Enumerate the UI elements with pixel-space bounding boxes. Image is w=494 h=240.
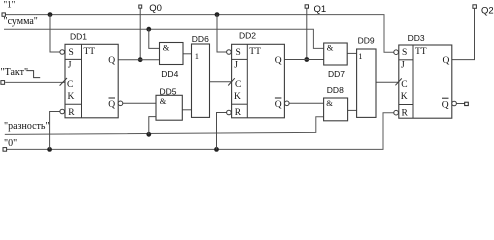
DD2 K/R row divider	[232, 103, 248, 105]
wire DD2.R riser	[217, 113, 227, 150]
svg-text:C: C	[401, 80, 407, 90]
node junction dot 0-line to DD2.R	[214, 147, 219, 152]
svg-text:"0": "0"	[4, 138, 17, 149]
wire DD4 output to DD6	[183, 53, 191, 55]
DD4 body	[160, 43, 184, 65]
svg-text:TT: TT	[249, 47, 261, 57]
svg-text:DD5: DD5	[160, 86, 177, 96]
wire Q2 from DD3.Q	[452, 8, 475, 59]
svg-text:DD6: DD6	[192, 34, 209, 44]
wire DD3.Qbar to output terminal	[456, 103, 464, 105]
DD2 R input inversion bubble	[227, 110, 232, 115]
svg-text:Q: Q	[108, 100, 115, 110]
port "0" terminal	[3, 148, 7, 152]
svg-text:Q: Q	[108, 56, 115, 66]
wire net "Такт"	[5, 81, 65, 83]
svg-text:&: &	[327, 42, 334, 52]
DD3 C dynamic input slash	[395, 78, 401, 85]
DD2 C dynamic input slash	[228, 78, 235, 85]
wire DD8 output to DD9	[348, 109, 357, 111]
DD3 pin column divider	[412, 45, 414, 118]
port Q1 terminal	[305, 5, 308, 8]
svg-text:K: K	[401, 92, 408, 102]
DD1 S/J row divider	[65, 58, 82, 60]
port "1" terminal	[2, 13, 5, 16]
svg-text:&: &	[163, 43, 170, 53]
svg-text:DD2: DD2	[239, 31, 256, 41]
DD2 S/J row divider	[232, 58, 248, 60]
wire net "разность" bus	[5, 117, 324, 135]
node junction dot разность to DD5	[146, 132, 151, 137]
DD8 body	[324, 98, 348, 121]
wire DD2.Q to DD7	[285, 59, 324, 61]
wire net "0" bus	[7, 113, 395, 150]
wire DD2.Qbar to DD8	[289, 102, 323, 104]
wire DD1.Q to DD4	[118, 59, 159, 61]
wire DD5 input riser from разность	[149, 117, 156, 135]
flip-flop U DD2 (JK trigger)	[227, 44, 290, 118]
DD2 Q-bar output inversion bubble	[285, 101, 290, 106]
DD2 body	[232, 44, 285, 118]
svg-text:J: J	[234, 61, 238, 71]
DD3 Q-bar overbar	[442, 97, 449, 99]
node junction dot Q1 on DD2.Q	[304, 57, 309, 62]
DD7 body	[324, 43, 348, 65]
svg-text:R: R	[235, 108, 242, 118]
node junction dot 1-line to DD2.S	[215, 12, 220, 17]
wire DD6 output to DD2.C	[210, 81, 232, 83]
flip-flop U DD1 (JK trigger)	[60, 44, 123, 118]
svg-text:"сумма": "сумма"	[4, 16, 38, 27]
svg-text:Q1: Q1	[314, 4, 327, 15]
svg-text:DD3: DD3	[408, 33, 425, 43]
DD1 Q-bar overbar	[109, 97, 116, 99]
port Q0 terminal	[139, 5, 142, 8]
wire DD1.R riser	[50, 112, 60, 150]
svg-text:"Такт": "Такт"	[1, 67, 29, 78]
node junction dot 1-line to DD1.S	[48, 12, 53, 17]
DD5 body	[156, 95, 182, 120]
DD1 R input inversion bubble	[60, 109, 65, 114]
svg-text:Q: Q	[442, 100, 449, 110]
svg-text:&: &	[160, 96, 167, 106]
gate DD5 AND	[156, 95, 182, 120]
svg-text:S: S	[69, 48, 74, 58]
DD3 body	[399, 45, 452, 118]
wire DD4 input riser from сумма	[149, 29, 160, 48]
DD2 Q-bar overbar	[275, 97, 282, 99]
DD3 S/J row divider	[399, 59, 413, 61]
gate DD4 AND	[160, 43, 184, 65]
wire net "1" bus	[5, 15, 394, 53]
svg-text:Q0: Q0	[149, 3, 162, 14]
DD1 K/R row divider	[65, 103, 82, 105]
svg-text:&: &	[326, 98, 333, 108]
svg-text:R: R	[68, 108, 75, 118]
wire Q1 riser	[306, 8, 308, 59]
svg-text:J: J	[68, 61, 72, 71]
svg-text:C: C	[235, 80, 241, 90]
DD6 body	[192, 44, 210, 117]
DD3 Q-bar output inversion bubble	[452, 101, 457, 106]
svg-text:K: K	[234, 92, 241, 102]
DD3 S input inversion bubble	[394, 50, 399, 55]
flip-flop U DD3 (JK trigger)	[394, 45, 457, 118]
DD1 body	[65, 44, 118, 118]
svg-text:DD1: DD1	[70, 32, 87, 42]
node junction dot 0-line to DD1.R	[47, 147, 52, 152]
svg-text:Q2: Q2	[481, 5, 494, 16]
wire DD1.S riser	[50, 15, 60, 52]
port Q2 terminal	[473, 5, 477, 9]
gate DD6 OR	[192, 44, 210, 117]
svg-text:DD8: DD8	[327, 85, 344, 95]
svg-text:"разность": "разность"	[4, 121, 50, 132]
svg-text:R: R	[402, 108, 409, 118]
svg-text:Q: Q	[443, 56, 450, 66]
DD2 S input inversion bubble	[227, 50, 232, 55]
svg-text:1: 1	[195, 51, 199, 61]
svg-text:1: 1	[358, 51, 362, 61]
DD1 C dynamic input slash	[60, 78, 67, 86]
svg-text:DD7: DD7	[328, 69, 345, 79]
node junction dot Q0 on DD1.Q	[138, 57, 143, 62]
node junction dot сумма to DD4	[146, 27, 151, 32]
svg-text:K: K	[68, 92, 75, 102]
svg-text:Q: Q	[275, 56, 282, 66]
DD2 pin column divider	[246, 44, 248, 118]
port Qbar output terminal	[465, 102, 469, 105]
DD3 K/R row divider	[399, 104, 413, 106]
DD3 R input inversion bubble	[394, 110, 399, 115]
svg-text:"1": "1"	[4, 0, 16, 10]
gate DD7 AND	[324, 42, 348, 65]
wire DD1.Qbar to DD5	[123, 102, 156, 104]
wire net "сумма" bus	[4, 29, 324, 48]
wire DD5 output to DD6	[182, 109, 191, 111]
svg-text:TT: TT	[84, 47, 96, 57]
wire DD9 output to DD3.C	[376, 81, 399, 83]
svg-text:S: S	[402, 48, 407, 58]
svg-text:TT: TT	[415, 47, 427, 57]
wire DD7 output to DD9	[347, 52, 356, 54]
svg-text:DD9: DD9	[358, 36, 375, 46]
port "Такт" terminal	[1, 81, 5, 85]
DD1 pin column divider	[81, 44, 83, 118]
svg-text:J: J	[401, 61, 405, 71]
svg-text:Q: Q	[275, 100, 282, 110]
gate DD9 OR	[357, 49, 376, 117]
svg-text:C: C	[67, 80, 73, 90]
svg-text:DD4: DD4	[161, 69, 178, 79]
DD9 body	[357, 49, 376, 117]
DD1 S input inversion bubble	[60, 50, 65, 55]
DD1 Q-bar output inversion bubble	[118, 101, 123, 106]
wire DD2.S riser	[217, 15, 227, 52]
gate DD8 AND	[324, 98, 348, 121]
clock pulse symbol	[26, 71, 40, 78]
wire Q0 riser	[139, 8, 141, 60]
svg-text:S: S	[236, 48, 241, 58]
